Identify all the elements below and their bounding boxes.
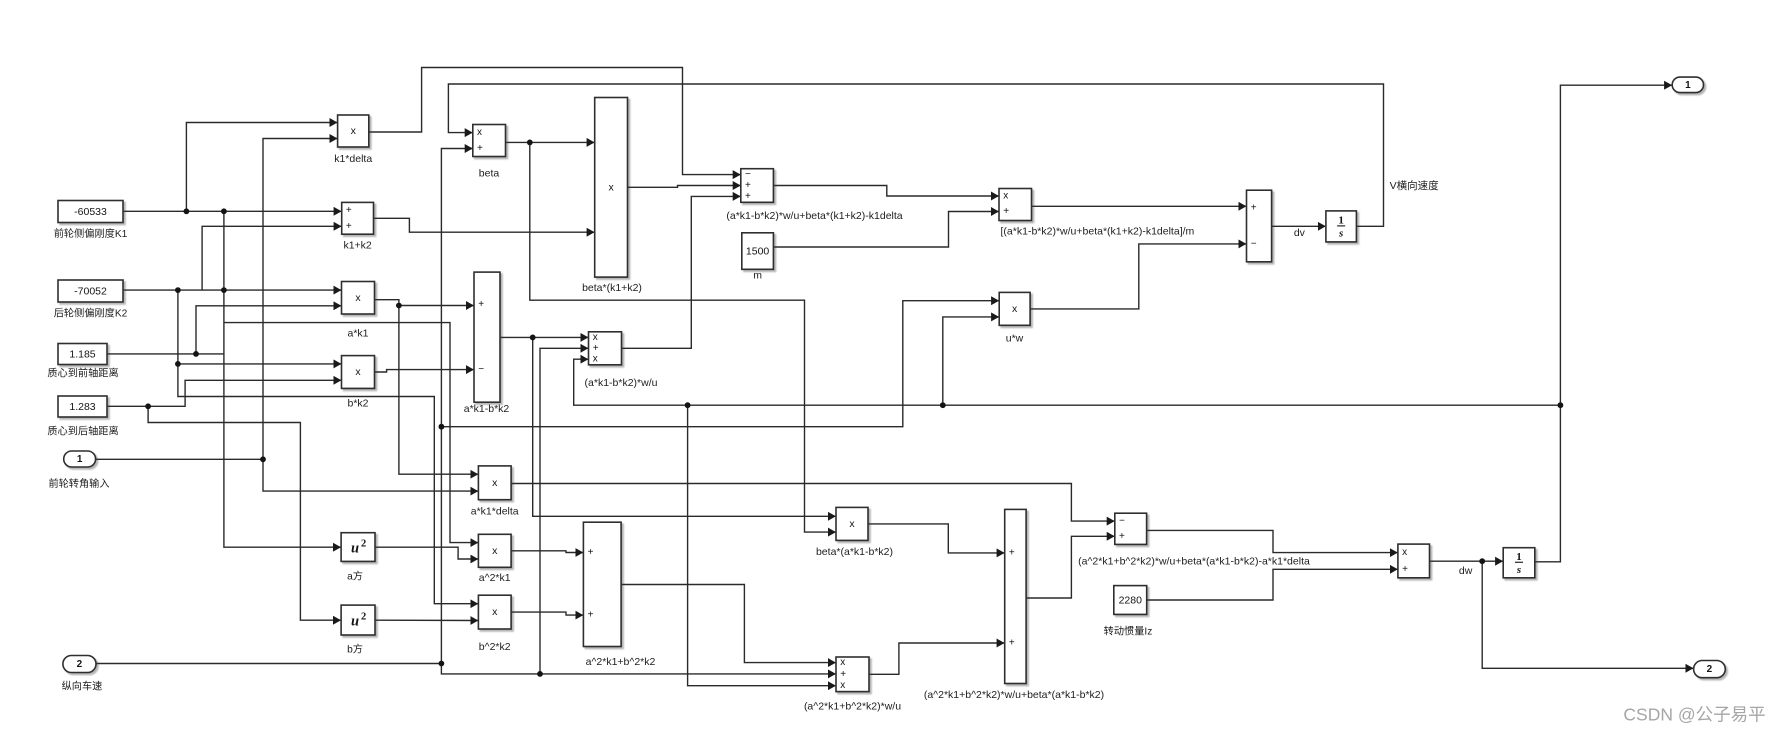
svg-text:1.283: 1.283 [69, 401, 95, 413]
svg-text:2: 2 [77, 659, 83, 670]
svg-text:2280: 2280 [1119, 595, 1143, 607]
svg-text:k1*delta: k1*delta [334, 153, 372, 165]
svg-text:dv: dv [1294, 227, 1306, 239]
wire delta down to a*k1*delta port2 [263, 459, 478, 491]
svg-text:u: u [351, 541, 359, 557]
wire u up to beta port2 [441, 149, 472, 664]
svg-text:x: x [608, 181, 614, 193]
svg-text:+: + [588, 610, 594, 621]
wire (a*k1-b*k2)*w/u out to sum plus2 port [622, 196, 741, 348]
wire a^2*k1+b^2*k2 out to (a^2*k1+b^2*k2)*w/u port1 [621, 585, 835, 663]
sum right minus-plus [1078, 513, 1310, 567]
svg-text:x: x [355, 292, 361, 304]
wire sum out to divide-by-m port1 [773, 186, 998, 197]
svg-text:a方: a方 [347, 570, 363, 583]
svg-text:+: + [478, 299, 484, 310]
svg-text:转动惯量Iz: 转动惯量Iz [1104, 625, 1153, 638]
wire K1 branch to a^2*k1 port1 [224, 323, 478, 543]
svg-text:+: + [840, 669, 846, 680]
svg-text:(a*k1-b*k2)*w/u+beta*(k1+k2)-k: (a*k1-b*k2)*w/u+beta*(k1+k2)-k1delta [726, 210, 902, 222]
svg-text:x: x [849, 518, 855, 530]
svg-text:x: x [492, 477, 498, 489]
wire b to b*k2 port2 [107, 380, 341, 406]
constant K2 (-70052) [54, 280, 128, 320]
wire K2 rise to k1+k2 port2 [202, 226, 341, 290]
wire a*k1-b*k2 out to (a*k1-b*k2)*w/u port1 [500, 336, 588, 338]
wire right sum out to divide-by-Iz port1 [1147, 530, 1398, 552]
svg-text:2: 2 [1707, 664, 1713, 675]
wire dw branch to outport 2 [1482, 561, 1693, 668]
product beta*(a*k1-b*k2) [816, 507, 893, 558]
divide beta [473, 125, 506, 180]
svg-text:+: + [1251, 203, 1257, 214]
svg-text:x: x [492, 606, 498, 618]
svg-text:+: + [1009, 638, 1015, 649]
svg-text:后轮侧偏刚度K2: 后轮侧偏刚度K2 [54, 307, 128, 320]
node u junction A [439, 661, 445, 667]
svg-text:+: + [1119, 531, 1125, 542]
svg-text:k1+k2: k1+k2 [343, 240, 371, 252]
wire K2 to a*k1 port1 [123, 289, 341, 291]
svg-text:1: 1 [1338, 214, 1344, 226]
wire dw to integrator [1430, 560, 1503, 562]
svg-text:x: x [1003, 191, 1008, 202]
square a (u^2 block) [341, 533, 375, 583]
wire beta out to beta*(k1+k2) port1 [506, 141, 595, 143]
svg-text:(a^2*k1+b^2*k2)*w/u+beta*(a*k1: (a^2*k1+b^2*k2)*w/u+beta*(a*k1-b*k2)-a*k… [1078, 556, 1310, 568]
wire a*k1 out to a*k1-b*k2 plus port [375, 300, 474, 306]
wire k1+k2 out to beta*(k1+k2) port2 [374, 218, 595, 232]
wire k1*delta out to sum minus port [369, 68, 741, 175]
svg-text:−: − [745, 169, 751, 180]
wire b*k2 out to a*k1-b*k2 minus port [375, 370, 474, 372]
svg-text:2: 2 [361, 612, 366, 623]
sum (a^2*k1+b^2*k2)*w/u+beta*(a*k1-b*k2) [924, 509, 1104, 701]
sum a*k1-b*k2 [464, 272, 510, 415]
product a^2*k1 [478, 534, 511, 584]
wire a^2*k1 out to adder port1 [511, 551, 583, 553]
wire a*k1-b*k2 branch to beta*(a*k1-b*k2) port1 [533, 337, 836, 516]
outport 1 [1672, 77, 1703, 93]
wire w branch up to u*w port2 [943, 317, 999, 405]
svg-text:m: m [753, 270, 762, 282]
wire u from inport 2 [96, 664, 836, 674]
node w junction A [685, 402, 691, 408]
node w junction B [940, 402, 946, 408]
svg-text:x: x [492, 545, 498, 557]
integrator 1/s (v) (integrator 1/s) [1326, 211, 1357, 242]
svg-text:x: x [840, 680, 845, 691]
svg-text:+: + [477, 143, 483, 154]
wire dv to integrator [1272, 225, 1326, 227]
svg-text:-70052: -70052 [74, 286, 107, 298]
integrator 1/s (w) (integrator 1/s) [1503, 548, 1535, 578]
sum a^2*k1+b^2*k2 [583, 522, 655, 668]
sum dv [1247, 190, 1272, 262]
node a*k1-b*k2 junction [530, 335, 536, 341]
svg-text:+: + [346, 205, 352, 216]
node K1 junction A [184, 208, 190, 214]
wire w from integrator to outport 1 [1535, 85, 1672, 562]
constant m (1500) [742, 233, 774, 282]
svg-text:a^2*k1+b^2*k2: a^2*k1+b^2*k2 [586, 656, 656, 668]
wire a-square out to a^2*k1 port2 [375, 547, 478, 559]
outport 2 [1694, 661, 1726, 678]
svg-text:x: x [351, 125, 357, 137]
svg-text:a*k1*delta: a*k1*delta [471, 506, 519, 518]
product beta*(k1+k2) [582, 98, 642, 295]
product b^2*k2 [478, 595, 511, 653]
inport 2 (longitudinal speed) [62, 656, 103, 693]
svg-text:1: 1 [1516, 551, 1522, 563]
constant Iz (2280) [1104, 586, 1153, 638]
svg-text:x: x [1012, 303, 1018, 315]
divide by Iz [1398, 544, 1430, 578]
svg-text:x: x [477, 127, 482, 138]
svg-text:前轮转角输入: 前轮转角输入 [48, 477, 109, 490]
node u junction C [439, 424, 445, 430]
svg-text:b*k2: b*k2 [347, 398, 368, 410]
svg-text:+: + [588, 547, 594, 558]
node u junction B [537, 671, 543, 677]
wire delta from inport 1 [96, 458, 263, 460]
wire K1 to k1+k2 port1 [123, 210, 341, 212]
sum k1+k2 [342, 202, 374, 251]
divide by m [999, 189, 1195, 238]
svg-text:−: − [1119, 516, 1125, 527]
node b junction [145, 403, 151, 409]
product a*k1 [342, 282, 375, 340]
svg-text:质心到前轴距离: 质心到前轴距离 [47, 367, 118, 380]
node K2 branch junction [175, 361, 181, 367]
node a*k1 junction [396, 303, 402, 309]
node K1 junction B [221, 208, 227, 214]
svg-text:1500: 1500 [746, 246, 770, 258]
svg-text:beta*(k1+k2): beta*(k1+k2) [582, 282, 642, 294]
svg-text:u: u [351, 614, 359, 630]
wire K2 branch to b*k2 port1 [178, 363, 341, 365]
wire a*k1*delta out to right sum minus [511, 484, 1114, 522]
svg-text:纵向车速: 纵向车速 [62, 680, 103, 693]
wire u rise to (a*k1-b*k2)*w/u port2 [540, 348, 588, 674]
sum (a*k1-b*k2)*w/u+beta*(k1+k2)-k1delta [726, 169, 902, 222]
svg-text:+: + [346, 221, 352, 232]
svg-text:前轮侧偏刚度K1: 前轮侧偏刚度K1 [54, 227, 128, 240]
svg-text:−: − [1251, 238, 1257, 249]
svg-text:1: 1 [77, 454, 83, 465]
wire u*w out to dv sum minus [1030, 244, 1246, 309]
wire lateral accel to dv sum plus [1032, 205, 1247, 207]
node beta junction [527, 140, 533, 146]
svg-text:+: + [745, 180, 751, 191]
svg-text:a*k1: a*k1 [347, 328, 368, 340]
product a*k1*delta [471, 466, 519, 518]
svg-text:V横向速度: V横向速度 [1390, 179, 1440, 192]
svg-text:a*k1-b*k2: a*k1-b*k2 [464, 403, 510, 415]
svg-text:(a^2*k1+b^2*k2)*w/u+beta*(a*k1: (a^2*k1+b^2*k2)*w/u+beta*(a*k1-b*k2) [924, 689, 1104, 701]
svg-text:s: s [1338, 227, 1343, 239]
node a junction [193, 351, 199, 357]
svg-text:b^2*k2: b^2*k2 [479, 641, 511, 653]
svg-text:x: x [593, 354, 598, 365]
square b (u^2 block) [341, 605, 375, 655]
product u*w [999, 292, 1030, 344]
svg-text:[(a*k1-b*k2)*w/u+beta*(k1+k2)-: [(a*k1-b*k2)*w/u+beta*(k1+k2)-k1delta]/m [1001, 226, 1195, 238]
product (a^2*k1+b^2*k2)*w/u [804, 657, 901, 713]
node K2 junction A [175, 287, 181, 293]
svg-text:1: 1 [1685, 80, 1691, 91]
product (a*k1-b*k2)*w/u [585, 332, 658, 389]
svg-text:+: + [745, 191, 751, 202]
wire beta*(k1+k2) out to sum plus port [628, 186, 741, 188]
svg-text:beta*(a*k1-b*k2): beta*(a*k1-b*k2) [816, 546, 893, 558]
wire v feedback to beta port1 [448, 84, 1383, 226]
wire Iz constant to divide port2 [1147, 569, 1398, 600]
wire delta up to k1*delta port2 [263, 139, 337, 460]
svg-text:质心到后轴距离: 质心到后轴距离 [47, 425, 118, 438]
svg-text:x: x [355, 366, 361, 378]
wire beta*(a*k1-b*k2) out to tall adder port1 [868, 524, 1004, 553]
svg-text:beta: beta [479, 168, 500, 180]
node K2 junction C [221, 287, 227, 293]
product k1*delta [334, 115, 372, 165]
wire K1/a vertical down to a-square block [224, 211, 341, 547]
wire b-square out to b^2*k2 port2 [375, 619, 478, 621]
wire tall adder out to right sum plus [1026, 536, 1114, 598]
wire w branch down to (a^2*k1+b^2*k2)*w/u port3 [688, 405, 836, 686]
wire K2 down to b^2*k2 port1 [178, 290, 478, 604]
svg-text:(a^2*k1+b^2*k2)*w/u: (a^2*k1+b^2*k2)*w/u [804, 701, 901, 713]
wire beta branch to beta*(a*k1-b*k2) port2 [530, 142, 836, 532]
svg-text:u*w: u*w [1006, 333, 1024, 345]
wire b branch to b-square block [148, 406, 341, 620]
svg-text:+: + [593, 343, 599, 354]
svg-text:a^2*k1: a^2*k1 [479, 572, 511, 584]
wire a*k1 branch to a*k1*delta port1 [399, 306, 478, 475]
constant K1 (-60533) [54, 201, 128, 241]
svg-text:2: 2 [361, 539, 366, 550]
wire (a^2*k1+b^2*k2)*w/u out to tall adder port2 [869, 643, 1004, 674]
wire u branch to u*w port1 [441, 301, 998, 427]
wire m constant to divide port2 [773, 212, 998, 248]
svg-text:x: x [1402, 547, 1407, 558]
wire a branch to a*k1 port2 [196, 306, 341, 354]
wire a to vertical [107, 353, 224, 355]
svg-text:x: x [840, 657, 845, 668]
svg-text:b方: b方 [347, 643, 363, 656]
svg-text:+: + [1009, 547, 1015, 558]
wire w feedback line to (a*k1-b*k2)*w/u port3 [574, 359, 1561, 405]
svg-text:1.185: 1.185 [69, 349, 95, 361]
svg-text:−: − [478, 364, 484, 375]
svg-text:+: + [1402, 564, 1408, 575]
node delta junction [260, 456, 266, 462]
wire K1 branch up to k1*delta port1 [186, 123, 337, 212]
inport 1 (steering angle) [48, 451, 109, 490]
svg-text:x: x [593, 332, 598, 343]
svg-text:dw: dw [1459, 565, 1473, 577]
svg-text:-60533: -60533 [74, 206, 107, 218]
node dw junction [1479, 558, 1485, 564]
product b*k2 [342, 356, 375, 410]
svg-text:CSDN @公子易平: CSDN @公子易平 [1623, 705, 1765, 725]
svg-text:(a*k1-b*k2)*w/u: (a*k1-b*k2)*w/u [585, 377, 658, 389]
constant b (1.283) [47, 396, 118, 438]
svg-text:s: s [1516, 564, 1521, 576]
constant a (1.185) [47, 344, 118, 380]
svg-text:+: + [1003, 206, 1009, 217]
wire b^2*k2 out to adder port2 [511, 612, 583, 615]
node w junction C [1558, 402, 1564, 408]
